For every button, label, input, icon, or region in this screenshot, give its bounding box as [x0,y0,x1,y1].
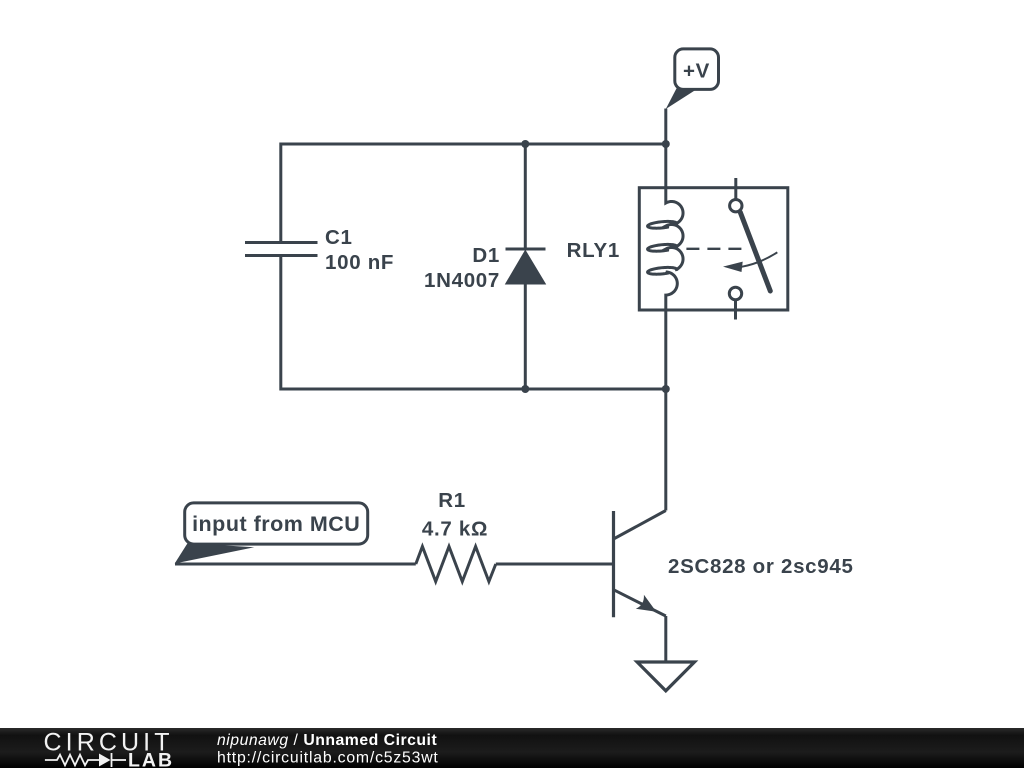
wire bottom rail to Q1 collector [664,389,667,511]
relay switch bottom contact circle [729,287,741,299]
relay actuation dashed link [686,248,743,250]
transistor Q1 emitter [614,590,666,616]
svg-text:LAB: LAB [128,749,174,768]
svg-text:RLY1: RLY1 [567,239,620,262]
svg-text:2SC828 or 2sc945: 2SC828 or 2sc945 [668,555,854,578]
wire bottom rail [281,256,666,389]
transistor Q1 emitter lead to ground [664,616,667,661]
CircuitLab logo resistor-diode glyph [45,753,126,767]
relay actuation arrow arc [742,252,778,266]
relay switch top terminal [734,178,737,200]
relay switch blade [740,212,770,291]
relay actuation arrowhead [723,262,743,272]
wire base lead from R1 to Q1 [496,563,614,566]
svg-text:+V: +V [683,60,710,83]
CircuitLab logo wordmark [0,728,1024,768]
transistor Q1 base bar [612,511,615,617]
input flag tail [175,543,255,563]
footer bar [0,728,1024,768]
resistor R1 labels [422,489,488,541]
input flag box [185,503,368,544]
wire top rail to relay coil [664,144,667,188]
node junction dot top relay [662,140,670,148]
wire D1 bottom lead [524,284,527,390]
svg-text:input from MCU: input from MCU [192,512,360,536]
ground symbol [637,662,694,691]
svg-text:100 nF: 100 nF [325,251,394,274]
relay RLY1 box [639,188,788,310]
node junction dot bottom relay [662,385,670,393]
relay switch top contact circle [730,200,742,212]
diode D1 [506,249,546,284]
resistor R1 [416,547,496,582]
power flag +V [666,49,719,109]
svg-text:R1: R1 [438,489,466,512]
node junction dot top D1 [521,140,529,148]
transistor Q1 collector [614,511,666,540]
relay switch bottom terminal [734,300,737,320]
wire D1 top lead [524,144,527,249]
svg-text:4.7 kΩ: 4.7 kΩ [422,518,488,541]
svg-text:D1: D1 [472,244,500,267]
svg-text:C1: C1 [325,226,353,249]
svg-text:nipunawg / Unnamed Circuit: nipunawg / Unnamed Circuit [217,732,437,749]
svg-text:http://circuitlab.com/c5z53wt: http://circuitlab.com/c5z53wt [217,750,439,767]
wire input flag to R1 [175,563,416,566]
capacitor C1 [245,243,318,256]
wire relay coil to bottom rail [664,311,667,389]
capacitor C1 labels [325,226,394,274]
svg-text:1N4007: 1N4007 [424,269,500,292]
transistor Q1 emitter arrowhead [636,595,657,612]
node junction dot bottom D1 [521,385,529,393]
wire top rail (node +V rail) [281,144,666,242]
diode D1 labels [424,244,500,292]
relay RLY1 coil [648,188,683,311]
wire +V to top rail [664,109,667,145]
